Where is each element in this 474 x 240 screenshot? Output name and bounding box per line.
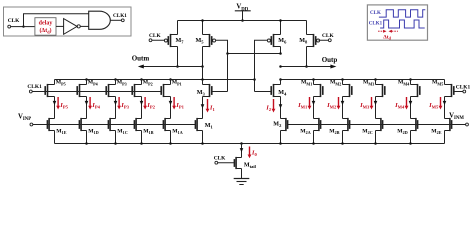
svg-text:MM3: MM3 bbox=[363, 80, 374, 87]
wire CLK to Mtail gate bbox=[218, 162, 235, 164]
wire node to AND top input bbox=[24, 14, 89, 27]
svg-text:CLK: CLK bbox=[214, 156, 226, 162]
node M2C source on rail bbox=[374, 142, 377, 145]
node M6-gate on left rail bbox=[253, 78, 256, 81]
terminal CLK tail bbox=[215, 161, 218, 164]
wire CLK1 gate line left bbox=[32, 91, 161, 93]
svg-text:CLK1: CLK1 bbox=[369, 21, 383, 26]
svg-text:M1B: M1B bbox=[143, 128, 153, 135]
node M2A source on rail bbox=[312, 142, 315, 145]
wire MM2 drain to M2B drain bbox=[342, 97, 344, 119]
wire MM1 source stub bbox=[313, 80, 315, 85]
ground bbox=[234, 179, 250, 185]
terminal CLK1 right bbox=[463, 90, 466, 93]
node VDD-rail bbox=[241, 19, 244, 22]
terminal VINP bbox=[30, 123, 33, 126]
wire M2A source to rail bbox=[313, 131, 315, 144]
wire VINP gate line bbox=[33, 124, 196, 126]
terminal CLK input bbox=[8, 25, 11, 28]
transistor M7 (clocked PMOS) bbox=[164, 34, 177, 47]
transistor M1A (input NMOS segment) bbox=[163, 118, 170, 131]
wire Outp line bbox=[281, 66, 333, 68]
transistor M1C (input NMOS segment) bbox=[108, 118, 115, 131]
node Outp-vert on right rail bbox=[279, 78, 282, 81]
svg-text:MP1: MP1 bbox=[172, 80, 182, 87]
current IP3 bbox=[117, 97, 129, 110]
current direction arrow col 2L bbox=[85, 101, 89, 105]
node M1A source on rail bbox=[169, 142, 172, 145]
wire M1E source to rail bbox=[54, 131, 56, 144]
inset box: CLK1 generator bbox=[4, 7, 132, 36]
svg-text:MP3: MP3 bbox=[117, 80, 127, 87]
wire M3 gate to Outp cross bbox=[212, 91, 228, 93]
wire MM3 drain to M2C drain bbox=[375, 97, 377, 119]
current IM1 bbox=[297, 97, 311, 110]
transistor MM4 (cal PMOS) bbox=[411, 84, 420, 97]
wire VDD stub bbox=[242, 11, 244, 21]
current direction arrow col 4L bbox=[140, 101, 144, 105]
svg-text:M4: M4 bbox=[278, 90, 287, 97]
current I2 bbox=[265, 99, 275, 113]
node M8 drain on Outp bbox=[305, 65, 308, 68]
transistor M1D (input NMOS segment) bbox=[79, 118, 86, 131]
transistor M2A (input NMOS segment) bbox=[314, 118, 321, 131]
svg-text:CLK: CLK bbox=[370, 11, 381, 16]
wire M3 source stub bbox=[202, 80, 204, 85]
wire M2B source to rail bbox=[342, 131, 344, 144]
svg-text:M2: M2 bbox=[273, 121, 282, 128]
transistor M1 (input NMOS) bbox=[195, 118, 202, 131]
transistor M4 (latch PMOS reset) bbox=[271, 84, 280, 97]
wire MM5 source stub bbox=[444, 80, 446, 85]
transistor MM2 (cal PMOS) bbox=[343, 84, 352, 97]
wire MM2 source stub bbox=[342, 80, 344, 85]
wire M4 gate to Outm cross bbox=[255, 91, 272, 93]
svg-text:Outp: Outp bbox=[322, 56, 338, 64]
svg-text:M1E: M1E bbox=[56, 128, 66, 135]
terminal CLK left bbox=[149, 39, 152, 42]
wire M6 drain down to Outp bbox=[280, 47, 282, 54]
wire M8 source up bbox=[306, 21, 308, 35]
svg-text:M2D: M2D bbox=[397, 128, 407, 135]
transistor M2C (input NMOS segment) bbox=[376, 118, 383, 131]
svg-text:M1C: M1C bbox=[117, 128, 127, 135]
node M5 source on rail bbox=[201, 19, 204, 22]
wire M7 drain to Outm bbox=[177, 47, 179, 67]
current IP5 bbox=[56, 97, 68, 110]
svg-text:MP2: MP2 bbox=[143, 80, 153, 87]
wire node to delay box bbox=[24, 26, 35, 28]
wire M4 drain to M2 drain bbox=[280, 97, 282, 119]
wire MM4 source stub bbox=[410, 80, 412, 85]
svg-text:CLK1: CLK1 bbox=[27, 84, 42, 90]
inset box: waveforms bbox=[367, 5, 427, 40]
terminal CLK1 left bbox=[29, 90, 32, 93]
current direction arrow col 2R bbox=[341, 101, 345, 105]
node MM2 source on rail bbox=[341, 78, 344, 81]
current IM4 bbox=[394, 97, 408, 110]
AND gate U2 bbox=[89, 11, 111, 29]
wire M2 source to rail bbox=[280, 131, 282, 144]
svg-text:MM4: MM4 bbox=[398, 80, 409, 87]
wire M2D source to rail bbox=[410, 131, 412, 144]
node M1B source on rail bbox=[140, 142, 143, 145]
inverter U1 bbox=[64, 19, 78, 35]
node MP1 source on rail bbox=[169, 78, 172, 81]
wire Outm line bbox=[142, 66, 203, 68]
svg-text:Δtd: Δtd bbox=[383, 34, 391, 40]
node M2 source on rail bbox=[279, 142, 282, 145]
node cross link right bbox=[279, 52, 282, 55]
wire M1C source to rail bbox=[115, 131, 117, 144]
transistor M1E (input NMOS segment) bbox=[47, 118, 54, 131]
current direction arrow col 1L bbox=[53, 101, 57, 105]
svg-text:MM1: MM1 bbox=[301, 80, 312, 87]
wire cross gate link bbox=[228, 53, 281, 55]
wire MP3 source stub bbox=[115, 80, 117, 85]
wire M1 source to rail bbox=[202, 131, 204, 144]
wire Mtail source down bbox=[241, 169, 243, 179]
wire M5-gate vertical to M3 gate bbox=[227, 54, 229, 92]
node M1C source on rail bbox=[114, 142, 117, 145]
node Outm-vert on left rail bbox=[201, 78, 204, 81]
svg-text:MP5: MP5 bbox=[56, 80, 66, 87]
wire M5 gate to cross node bbox=[216, 40, 228, 53]
wire tail drain up bbox=[241, 144, 243, 158]
wire M5 drain down to Outm bbox=[202, 47, 204, 67]
svg-text:M7: M7 bbox=[176, 38, 185, 45]
wire MM5 drain to M2E drain bbox=[444, 97, 446, 119]
inverter bubble bbox=[77, 25, 80, 28]
wire VINM gate line bbox=[288, 124, 466, 126]
wire M8 gate to CLK bbox=[319, 39, 329, 41]
svg-text:CLK1: CLK1 bbox=[456, 85, 471, 91]
svg-text:Outm: Outm bbox=[132, 55, 150, 63]
wire MP2 drain to M1B drain bbox=[141, 97, 143, 119]
current direction arrow col 5L bbox=[169, 101, 173, 105]
arrow Outp bbox=[330, 65, 336, 69]
current direction arrow M2 col bbox=[279, 104, 283, 108]
current IM3 bbox=[359, 97, 373, 110]
svg-text:CLK: CLK bbox=[149, 33, 161, 39]
wire inverter to AND bottom input bbox=[80, 25, 88, 27]
node MP2 source on rail bbox=[140, 78, 143, 81]
svg-text:(Δtd): (Δtd) bbox=[39, 27, 51, 34]
wire M2E source to rail bbox=[444, 131, 446, 144]
svg-text:M2C: M2C bbox=[362, 128, 372, 135]
node M2D source on rail bbox=[409, 142, 412, 145]
current direction arrow col 4R bbox=[409, 101, 413, 105]
node MM1 source on rail bbox=[312, 78, 315, 81]
transistor M2D (input NMOS segment) bbox=[411, 118, 418, 131]
svg-text:MM5: MM5 bbox=[432, 80, 443, 87]
node MM3 source on rail bbox=[374, 78, 377, 81]
CLK waveform bbox=[379, 10, 425, 17]
wire MP5 drain to M1E drain bbox=[54, 97, 56, 119]
svg-text:CLK1: CLK1 bbox=[113, 13, 127, 19]
transistor MP4 (cal PMOS) bbox=[77, 84, 86, 97]
node M1 source on rail bbox=[201, 142, 204, 145]
transistor MP5 (cal PMOS) bbox=[45, 84, 54, 97]
wire M1B source to rail bbox=[141, 131, 143, 144]
wire MP5 source stub bbox=[54, 80, 56, 85]
transistor M1B (input NMOS segment) bbox=[134, 118, 141, 131]
current IM5 bbox=[428, 97, 442, 110]
svg-text:Mtail: Mtail bbox=[244, 162, 257, 169]
wire M2C source to rail bbox=[375, 131, 377, 144]
terminal CLK right bbox=[328, 39, 331, 42]
wire MM1 drain to M2A drain bbox=[313, 97, 315, 119]
node A (CLK branch) bbox=[22, 25, 24, 27]
node tail on rail bbox=[240, 142, 243, 145]
current IP4 bbox=[88, 97, 100, 110]
terminal CLK1 output bbox=[121, 19, 124, 22]
wire MM4 drain to M2D drain bbox=[410, 97, 412, 119]
wire MP4 source stub bbox=[86, 80, 88, 85]
wire M4 source stub bbox=[280, 80, 282, 85]
current direction arrow col 3L bbox=[114, 101, 118, 105]
wire right bank top rail (Outp) bbox=[281, 79, 445, 81]
transistor M5 (latch PMOS) bbox=[203, 34, 216, 47]
current direction arrow col 5R bbox=[443, 101, 447, 105]
wire left bank top rail (Outm) bbox=[55, 79, 255, 81]
svg-text:delay: delay bbox=[39, 21, 53, 27]
node MP3 source on rail bbox=[114, 78, 117, 81]
wire M3 drain to M1 drain bbox=[202, 97, 204, 119]
arrow Outm bbox=[138, 65, 144, 69]
CLK1 waveform bbox=[380, 20, 425, 28]
svg-text:CLK: CLK bbox=[8, 18, 20, 24]
node MM4 source on rail bbox=[409, 78, 412, 81]
wire MP4 drain to M1D drain bbox=[86, 97, 88, 119]
wire M8 drain to Outp bbox=[306, 47, 308, 67]
node M2B source on rail bbox=[341, 142, 344, 145]
node M1D source on rail bbox=[85, 142, 88, 145]
wire M6-gate vertical to M4 gate bbox=[254, 80, 256, 92]
wire CLK input to node bbox=[11, 26, 24, 28]
current IP1 bbox=[172, 97, 184, 110]
svg-text:M6: M6 bbox=[278, 38, 287, 45]
wire MP2 source stub bbox=[141, 80, 143, 85]
svg-text:M1D: M1D bbox=[88, 128, 98, 135]
svg-text:M5: M5 bbox=[196, 38, 205, 45]
wire Outm down to left bank rail bbox=[202, 67, 204, 80]
current direction arrow col 1R bbox=[312, 101, 316, 105]
svg-text:M8: M8 bbox=[299, 38, 308, 45]
transistor M2B (input NMOS segment) bbox=[343, 118, 350, 131]
current direction arrow M1 col bbox=[201, 104, 205, 108]
wire latch top rail bbox=[178, 20, 307, 22]
wire M6 source up bbox=[280, 21, 282, 35]
node Outp on M6 vertical bbox=[279, 65, 282, 68]
power VDD bar bbox=[235, 10, 251, 12]
wire M1D source to rail bbox=[86, 131, 88, 144]
svg-text:M3: M3 bbox=[197, 90, 206, 97]
svg-text:MM2: MM2 bbox=[330, 80, 341, 87]
transistor M8 (clocked PMOS) bbox=[307, 34, 320, 47]
wire common source rail bbox=[55, 143, 445, 145]
transistor M6 (latch PMOS) bbox=[267, 34, 280, 47]
svg-text:M2B: M2B bbox=[329, 128, 339, 135]
svg-text:CLK: CLK bbox=[322, 33, 334, 39]
wire MM3 source stub bbox=[375, 80, 377, 85]
svg-text:M2E: M2E bbox=[431, 128, 441, 135]
wire CLK to M7 gate bbox=[152, 39, 165, 41]
wire delay to inverter bbox=[56, 25, 64, 27]
node MP4 source on rail bbox=[85, 78, 88, 81]
svg-text:M2A: M2A bbox=[300, 128, 310, 135]
wire M1A source to rail bbox=[170, 131, 172, 144]
transistor MP1 (cal PMOS) bbox=[161, 84, 170, 97]
delay dimension arrows bbox=[378, 30, 398, 33]
transistor M3 (latch PMOS reset) bbox=[203, 84, 212, 97]
transistor MM1 (cal PMOS) bbox=[314, 84, 323, 97]
transistor MM3 (cal PMOS) bbox=[376, 84, 385, 97]
current IM2 bbox=[326, 97, 340, 110]
transistor M2 (input NMOS) bbox=[281, 118, 288, 131]
svg-text:M1A: M1A bbox=[172, 128, 182, 135]
transistor Mtail bbox=[234, 157, 241, 169]
svg-text:M1: M1 bbox=[205, 123, 214, 130]
node cross link left bbox=[226, 52, 229, 55]
node M7 drain on Outm bbox=[176, 65, 179, 68]
transistor M2E (input NMOS segment) bbox=[445, 118, 452, 131]
wire M6 gate to cross vertical bbox=[255, 40, 268, 79]
wire MP1 drain to M1A drain bbox=[170, 97, 172, 119]
transistor MM5 (cal PMOS) bbox=[445, 84, 454, 97]
current direction arrow col 3R bbox=[374, 101, 378, 105]
wire MP3 drain to M1C drain bbox=[115, 97, 117, 119]
delay block (dashed red) bbox=[35, 18, 56, 36]
terminal VINM bbox=[466, 123, 469, 126]
current direction arrow tail bbox=[240, 148, 244, 152]
node Outm to rail vertical bbox=[201, 65, 204, 68]
wire M7 source up bbox=[177, 21, 179, 35]
wire AND output to CLK1 terminal bbox=[110, 19, 121, 21]
current I0 bbox=[248, 147, 258, 159]
wire M5 source up bbox=[202, 21, 204, 35]
wire MP1 source stub bbox=[170, 80, 172, 85]
svg-text:MP4: MP4 bbox=[88, 80, 98, 87]
current I1 bbox=[206, 99, 216, 113]
current IP2 bbox=[143, 97, 155, 110]
transistor MP3 (cal PMOS) bbox=[106, 84, 115, 97]
transistor MP2 (cal PMOS) bbox=[132, 84, 141, 97]
node M6 source on rail bbox=[279, 19, 282, 22]
wire CLK1 gate line right bbox=[454, 91, 463, 93]
